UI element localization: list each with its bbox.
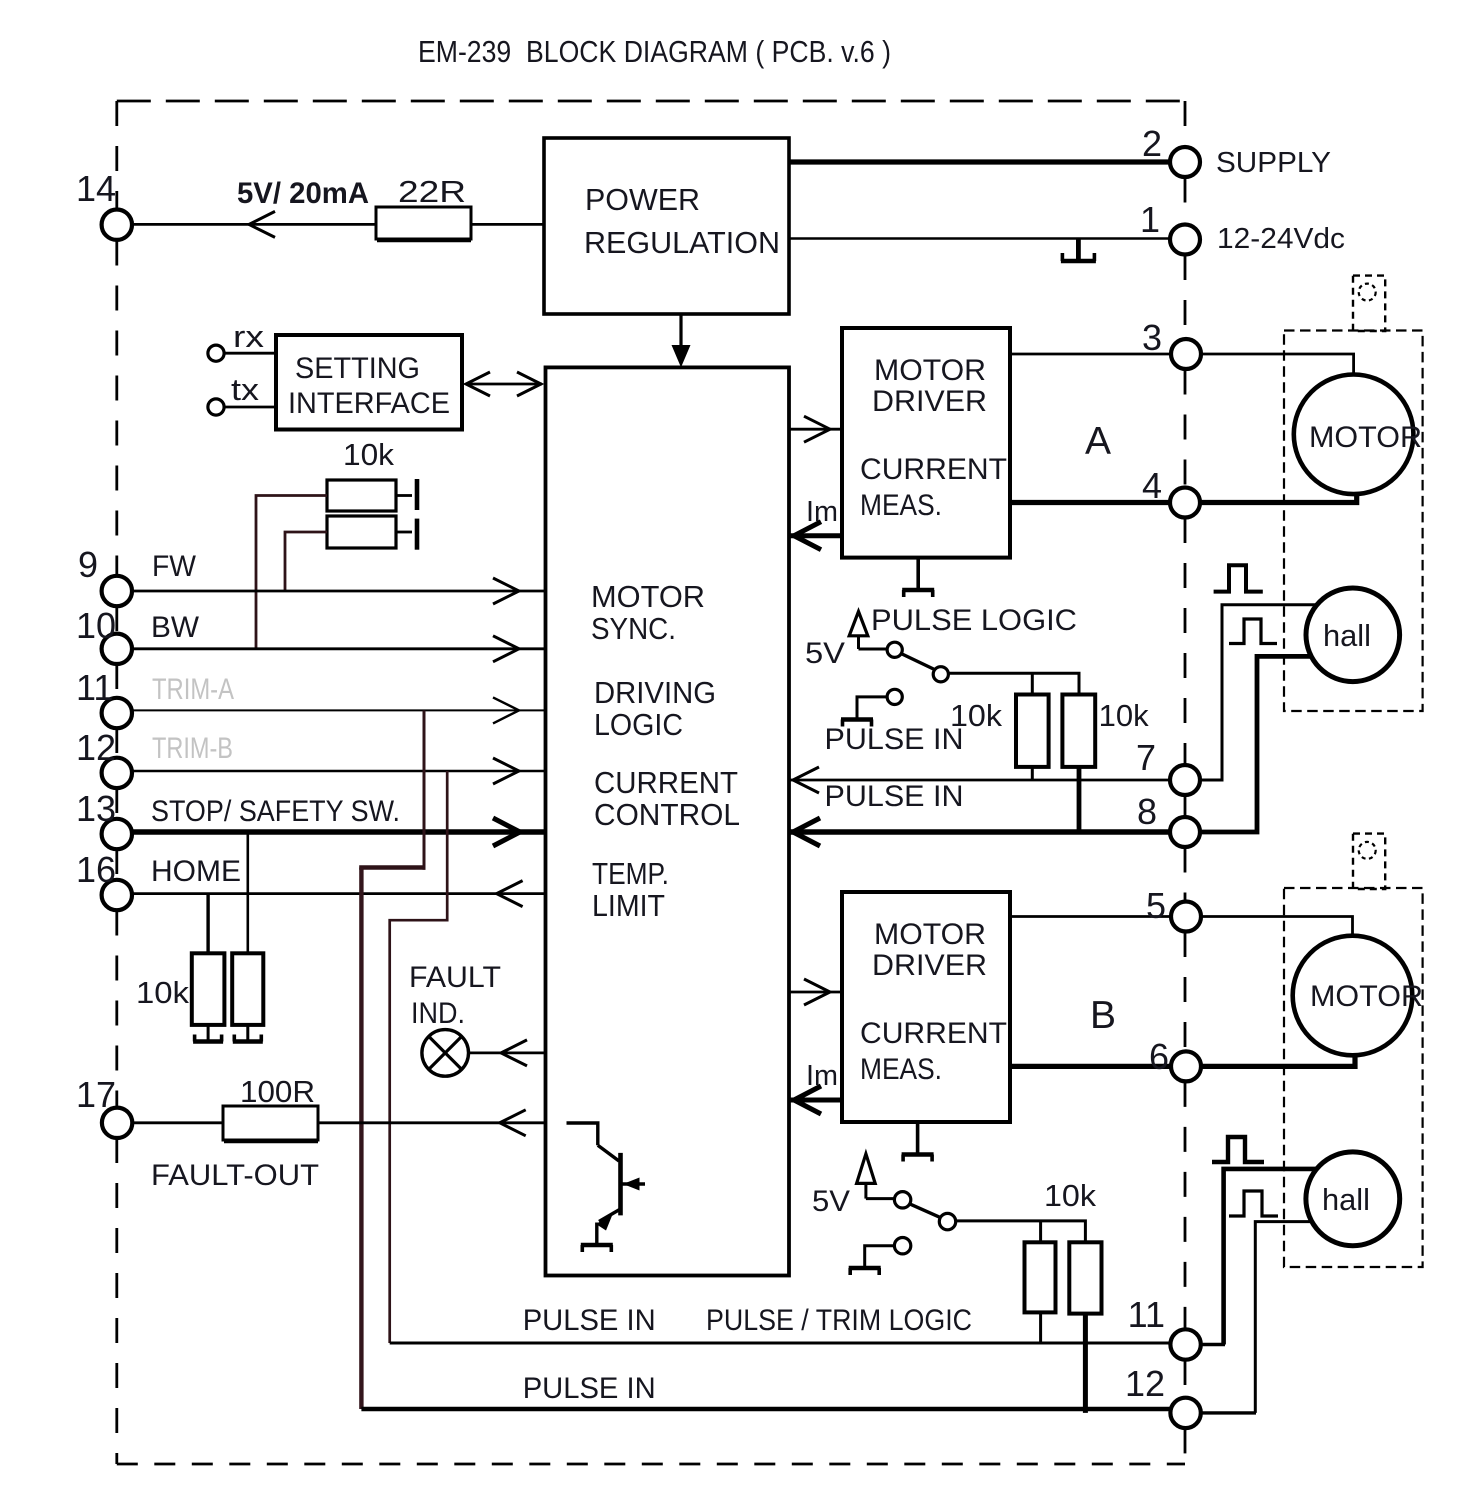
switch A lower contact — [887, 689, 902, 704]
svg-text:12: 12 — [1125, 1363, 1165, 1404]
svg-text:PULSE / TRIM LOGIC: PULSE / TRIM LOGIC — [706, 1304, 972, 1337]
svg-text:Im: Im — [806, 496, 838, 528]
pulse symbol A2 — [1229, 619, 1277, 644]
arrow to terminal 14 — [132, 223, 376, 226]
svg-text:Im: Im — [806, 1060, 838, 1092]
svg-text:TEMP.: TEMP. — [592, 856, 669, 891]
svg-text:DRIVING: DRIVING — [594, 675, 716, 710]
svg-text:CURRENT: CURRENT — [594, 765, 738, 800]
wire STOP SAFETY SW — [132, 829, 546, 835]
ground of transistor emitter — [581, 1243, 613, 1248]
wire driver B to terminal 6 — [1010, 1064, 1170, 1069]
svg-text:PULSE IN: PULSE IN — [523, 1304, 656, 1337]
svg-text:10k: 10k — [136, 975, 190, 1010]
resistor 22R — [376, 207, 471, 239]
svg-text:REGULATION: REGULATION — [584, 225, 780, 260]
resistor 10k pull-up HOME — [206, 895, 209, 953]
terminal 2 — [1170, 147, 1200, 177]
svg-text:hall: hall — [1322, 1182, 1370, 1217]
svg-text:5V: 5V — [805, 637, 845, 670]
svg-text:SYNC.: SYNC. — [591, 611, 676, 646]
motor B — [1293, 936, 1413, 1056]
switch B lever — [910, 1204, 942, 1218]
terminal 5 — [1171, 902, 1201, 932]
svg-text:12: 12 — [76, 727, 116, 768]
svg-text:CONTROL: CONTROL — [594, 797, 740, 832]
svg-text:A: A — [1085, 420, 1111, 463]
terminal rx — [208, 345, 224, 361]
motor A — [1294, 375, 1414, 495]
block MOTOR SYNC / DRIVING LOGIC / CURRENT CONTROL / TEMP LIMIT — [546, 367, 790, 1275]
svg-text:PULSE LOGIC: PULSE LOGIC — [871, 604, 1077, 637]
svg-text:9: 9 — [78, 544, 98, 585]
wire terminal 3 to motor A — [1201, 354, 1354, 375]
wire 10k B to pulse in 11 — [1039, 1312, 1042, 1344]
svg-text:MOTOR: MOTOR — [591, 579, 705, 614]
svg-text:5: 5 — [1146, 885, 1166, 926]
connector A dashed — [1353, 276, 1385, 331]
ground below 10k STOP — [246, 1025, 249, 1042]
wire logic to motor driver B — [789, 991, 842, 994]
block SETTING INTERFACE — [276, 335, 462, 430]
svg-text:17: 17 — [76, 1074, 116, 1115]
terminal 17 FAULT-OUT — [102, 1108, 132, 1138]
block MOTOR DRIVER B / CURRENT MEAS — [842, 892, 1010, 1122]
wire hall A to terminal 8 — [1201, 656, 1311, 832]
terminal 16 HOME — [102, 880, 132, 910]
svg-text:8: 8 — [1137, 791, 1157, 832]
svg-text:HOME: HOME — [151, 855, 241, 888]
svg-text:FW: FW — [152, 550, 197, 583]
pulse symbol B2 — [1229, 1191, 1278, 1216]
terminal 11 TRIM-A — [102, 698, 132, 728]
terminal 10 BW — [102, 634, 132, 664]
wire driver A to terminal 4 — [1010, 500, 1170, 505]
svg-text:10k: 10k — [1044, 1178, 1097, 1213]
wire Im B current measurement — [789, 1098, 842, 1103]
transistor Q1 open collector — [567, 1123, 598, 1145]
wire TRIM-A link to pulse-in 12 — [423, 710, 426, 869]
resistor 100R — [223, 1106, 318, 1140]
hall sensor B — [1306, 1152, 1400, 1246]
wire fault indicator — [469, 1052, 546, 1055]
svg-text:hall: hall — [1323, 618, 1371, 653]
terminal 9 FW — [102, 576, 132, 606]
wire switch A to pull-ups — [948, 673, 1079, 694]
svg-text:TRIM-A: TRIM-A — [152, 673, 234, 706]
svg-text:B: B — [1090, 994, 1116, 1037]
bidirectional arrow setting interface to logic — [468, 383, 542, 386]
ground below 10k HOME — [207, 1025, 210, 1042]
wire HOME temp limit — [132, 892, 546, 895]
ground at supply input — [1076, 239, 1081, 262]
wire TRIM-B link to pulse-in 11 — [390, 771, 448, 1343]
svg-text:tx: tx — [231, 372, 260, 407]
svg-text:10k: 10k — [1099, 698, 1149, 733]
wire driver B to terminal 5 — [1010, 915, 1170, 918]
wire 12-24Vdc 1 — [789, 237, 1170, 240]
resistor 10k pulse A left — [1016, 695, 1049, 767]
ground motor driver A — [916, 558, 920, 590]
svg-text:BW: BW — [151, 611, 200, 644]
svg-text:LOGIC: LOGIC — [594, 707, 683, 742]
terminal 1 — [1170, 225, 1200, 255]
terminal 7 — [1170, 765, 1200, 795]
svg-text:PULSE IN: PULSE IN — [523, 1372, 656, 1405]
resistor 10k pull-up FW — [327, 516, 396, 548]
svg-text:CURRENT: CURRENT — [860, 1017, 1007, 1050]
resistor 10k pulse A right — [1062, 695, 1095, 767]
terminal tx — [208, 399, 224, 415]
wire to ground switch B — [865, 1246, 895, 1266]
svg-text:LIMIT: LIMIT — [592, 888, 665, 923]
terminal 3 — [1171, 339, 1201, 369]
svg-text:MOTOR: MOTOR — [1310, 980, 1423, 1013]
svg-text:1: 1 — [1140, 199, 1160, 240]
svg-text:STOP/ SAFETY SW.: STOP/ SAFETY SW. — [151, 795, 400, 828]
dashed border bottom — [117, 1463, 1185, 1466]
wire hall B to terminal 12 — [1255, 1222, 1312, 1413]
svg-text:CURRENT: CURRENT — [860, 453, 1007, 486]
svg-text:5V/ 20mA: 5V/ 20mA — [237, 177, 369, 210]
svg-text:12-24Vdc: 12-24Vdc — [1217, 223, 1345, 255]
wire PULSE IN 12 — [361, 1407, 1170, 1412]
motor B dashed enclosure — [1284, 888, 1423, 1267]
svg-text:FAULT-OUT: FAULT-OUT — [151, 1159, 319, 1192]
switch A moving contact — [933, 667, 948, 682]
terminal 12 bottom — [1170, 1398, 1200, 1428]
arrow power reg to logic — [679, 314, 682, 352]
svg-text:MOTOR: MOTOR — [874, 918, 986, 951]
wire to ground switch A — [857, 697, 887, 718]
wire PULSE IN 11 — [390, 1342, 1170, 1345]
svg-text:22R: 22R — [398, 174, 466, 209]
wire Im A current measurement — [789, 533, 842, 538]
motor A dashed enclosure — [1284, 331, 1423, 712]
wire terminal 6 to motor B — [1201, 1056, 1355, 1066]
svg-text:FAULT: FAULT — [409, 961, 501, 994]
svg-text:14: 14 — [76, 168, 116, 209]
svg-text:INTERFACE: INTERFACE — [288, 387, 450, 420]
svg-text:11: 11 — [76, 667, 113, 708]
svg-text:TRIM-B: TRIM-B — [152, 732, 233, 765]
switch A pivot contact — [887, 642, 902, 657]
svg-text:SETTING: SETTING — [295, 352, 420, 385]
block MOTOR DRIVER A / CURRENT MEAS — [842, 328, 1010, 558]
connector B dashed — [1353, 834, 1385, 889]
wire 10k to pulse in 8 — [1077, 767, 1082, 832]
svg-text:MEAS.: MEAS. — [860, 1053, 942, 1086]
svg-text:rx: rx — [233, 319, 265, 354]
svg-text:DRIVER: DRIVER — [872, 949, 987, 982]
wire terminal 17 to 100R — [132, 1121, 223, 1124]
svg-text:7: 7 — [1136, 737, 1156, 778]
svg-text:POWER: POWER — [585, 182, 700, 217]
switch A lever — [901, 654, 935, 670]
dashed border left — [115, 101, 118, 209]
wire BW — [132, 647, 546, 650]
wire rx — [224, 352, 276, 355]
svg-text:IND.: IND. — [411, 997, 465, 1030]
svg-text:3: 3 — [1142, 317, 1162, 358]
svg-text:SUPPLY: SUPPLY — [1216, 147, 1331, 179]
wire 10k to pulse in 7 — [1031, 767, 1034, 780]
svg-text:MOTOR: MOTOR — [874, 354, 986, 387]
terminal 11 bottom — [1170, 1329, 1200, 1359]
wire FW — [132, 590, 546, 593]
svg-text:16: 16 — [76, 849, 116, 890]
wire driver A to terminal 3 — [1010, 353, 1170, 356]
dashed border top — [117, 100, 1185, 103]
resistor 10k pulse B left — [1025, 1242, 1056, 1312]
wire 10k B to pulse in 12 — [1083, 1314, 1088, 1413]
svg-text:EM-239 BLOCK DIAGRAM ( PCB. v: EM-239 BLOCK DIAGRAM ( PCB. v.6 ) — [418, 34, 891, 69]
svg-text:PULSE IN: PULSE IN — [825, 780, 964, 813]
svg-text:2: 2 — [1142, 123, 1162, 164]
resistor 10k pulse B right — [1069, 1242, 1101, 1313]
terminal 14 — [102, 210, 132, 240]
wire TRIM-B — [132, 770, 546, 773]
svg-text:13: 13 — [76, 788, 116, 829]
pulse symbol B1 — [1212, 1137, 1264, 1162]
wire hall A to terminal 7 — [1201, 605, 1317, 780]
terminal 13 STOP — [102, 819, 132, 849]
hall sensor A — [1306, 588, 1400, 682]
wire power reg to regulator 14 — [471, 223, 544, 226]
svg-text:6: 6 — [1149, 1036, 1169, 1077]
wire hall B to terminal 11 — [1224, 1169, 1318, 1345]
terminal 6 — [1171, 1051, 1201, 1081]
wire 10k to BW — [256, 496, 327, 649]
svg-text:100R: 100R — [240, 1074, 315, 1109]
pulse symbol A1 — [1214, 565, 1263, 591]
svg-text:10: 10 — [76, 605, 116, 646]
wire 10k to FW — [285, 532, 327, 591]
wire switch B to pull-ups — [956, 1221, 1086, 1242]
dashed border right — [1184, 101, 1187, 147]
wire logic to motor driver A — [789, 428, 842, 431]
wire FAULT-OUT to logic — [318, 1121, 546, 1124]
terminal 4 — [1170, 488, 1200, 518]
wire terminal 5 to motor B — [1201, 917, 1353, 936]
wire supply 2 — [789, 159, 1170, 164]
svg-text:PULSE IN: PULSE IN — [825, 723, 964, 756]
block POWER REGULATION — [544, 138, 789, 314]
svg-text:10k: 10k — [343, 437, 395, 472]
svg-text:MOTOR: MOTOR — [1309, 421, 1422, 454]
svg-text:11: 11 — [1128, 1294, 1165, 1335]
wire tx — [224, 406, 276, 409]
wire terminal 4 to motor A — [1200, 492, 1357, 503]
switch B pivot contact — [894, 1192, 910, 1208]
resistor 10k pull-up BW — [327, 480, 396, 511]
switch B lower contact — [894, 1238, 910, 1254]
svg-text:5V: 5V — [812, 1185, 850, 1218]
wire TRIM-A — [132, 709, 546, 711]
svg-text:DRIVER: DRIVER — [872, 385, 987, 418]
ground motor driver B — [916, 1122, 920, 1155]
terminal 8 — [1170, 817, 1200, 847]
switch B moving contact — [939, 1213, 955, 1229]
svg-text:MEAS.: MEAS. — [860, 489, 942, 522]
svg-text:4: 4 — [1142, 465, 1162, 506]
resistor 10k pull-up STOP — [247, 832, 250, 953]
terminal 12 TRIM-B — [102, 758, 132, 788]
